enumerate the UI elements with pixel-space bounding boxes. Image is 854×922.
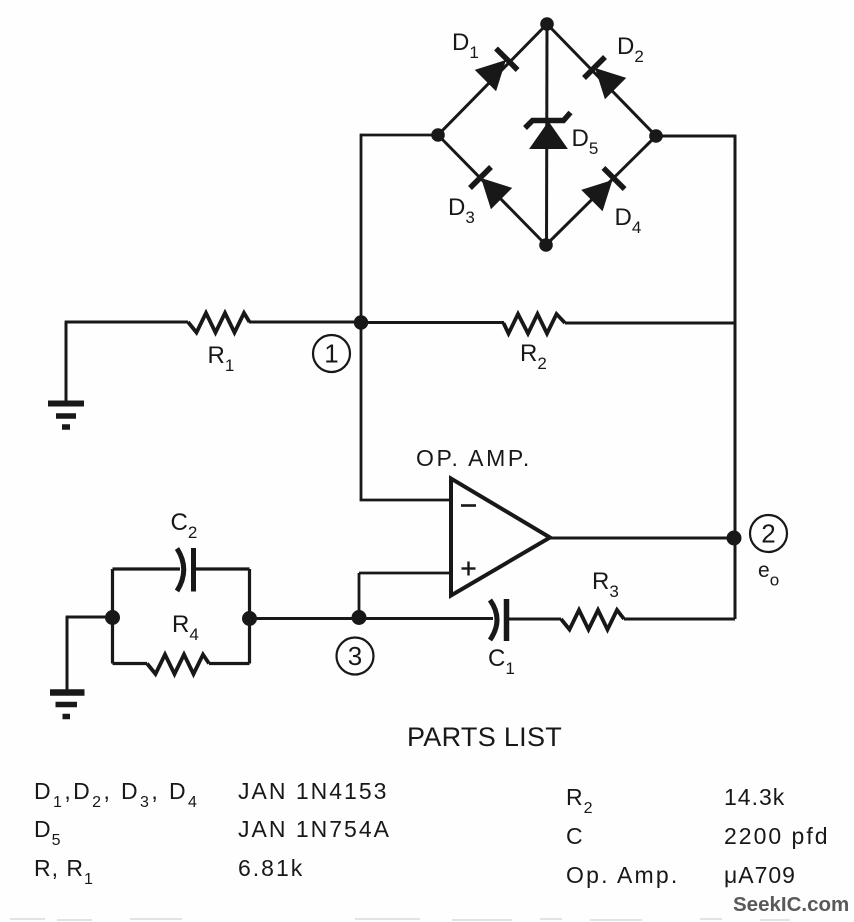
svg-text:JAN 1N4153: JAN 1N4153 xyxy=(238,778,388,804)
wire op-amp plus input xyxy=(359,572,452,575)
wire bridge center vertical xyxy=(545,24,549,245)
node bridge top junction xyxy=(540,17,554,31)
wire left ground drop xyxy=(65,322,68,402)
svg-text:2200 pfd: 2200 pfd xyxy=(724,823,830,849)
svg-text:μA709: μA709 xyxy=(724,862,796,888)
wire bridge left node to left rail xyxy=(361,134,438,137)
svg-text:JAN 1N754A: JAN 1N754A xyxy=(238,816,391,842)
wire bridge arm bottom-left xyxy=(438,135,546,245)
svg-text:14.3k: 14.3k xyxy=(724,784,785,810)
parallel box right vertical xyxy=(248,569,251,664)
diode D3 xyxy=(470,167,510,207)
wire op-amp output to node 2 xyxy=(549,537,735,540)
node bridge bottom junction xyxy=(539,238,553,252)
svg-text:1: 1 xyxy=(324,339,338,369)
wire parallel box left to ground xyxy=(66,616,113,619)
parallel box top rail left segment xyxy=(113,567,181,570)
capacitor C2 xyxy=(177,548,194,592)
parallel box top rail right segment xyxy=(194,567,250,570)
zener diode D5 xyxy=(525,113,571,149)
wire bridge arm top-left xyxy=(438,24,547,135)
parallel box bottom rail right segment xyxy=(209,662,250,665)
parallel box left vertical xyxy=(111,569,114,664)
node 1 junction dot xyxy=(354,315,368,329)
node parallel box left junction xyxy=(105,610,120,625)
wire R1 to node 1 xyxy=(249,321,361,324)
wire C1 to node 3 xyxy=(359,617,493,620)
wire R3 to C1 xyxy=(507,618,561,621)
ground (left, at R1) xyxy=(48,404,84,428)
svg-text:Op. Amp.: Op. Amp. xyxy=(566,862,679,888)
ground (bottom, at R4/C2) xyxy=(50,693,85,717)
svg-text:OP. AMP.: OP. AMP. xyxy=(416,445,532,471)
wire op-amp minus input xyxy=(360,499,452,502)
svg-text:6.81k: 6.81k xyxy=(238,855,304,881)
resistor R3 xyxy=(561,610,624,630)
wire right rail vertical xyxy=(734,135,737,619)
wire R2 to right rail xyxy=(565,322,737,325)
wire bridge right node to right rail xyxy=(656,135,735,138)
node bridge right junction xyxy=(649,129,663,143)
wire node 2 rail down to R3 row xyxy=(624,618,735,621)
faint scan remnants bottom edge xyxy=(10,919,790,920)
svg-text:3: 3 xyxy=(348,641,362,671)
node 2 circled label xyxy=(750,515,787,552)
wire bridge arm top-right xyxy=(547,24,656,136)
diode D4 xyxy=(584,168,625,209)
svg-text:2: 2 xyxy=(761,519,775,549)
op-amp U1 xyxy=(451,479,550,596)
node parallel box right junction xyxy=(242,611,257,626)
node 2 junction dot xyxy=(727,531,742,546)
svg-text:SeekIC.com: SeekIC.com xyxy=(733,893,849,916)
wire ground to R1 xyxy=(65,321,188,324)
wire node 1 to R2 xyxy=(361,321,504,324)
svg-text:PARTS LIST: PARTS LIST xyxy=(407,722,562,752)
diode D2 xyxy=(584,57,624,97)
wire bottom ground drop xyxy=(66,617,69,690)
node 1 circled label xyxy=(313,335,350,372)
node 3 junction dot xyxy=(352,610,367,625)
svg-text:C: C xyxy=(566,823,584,849)
wire node 3 to parallel box right xyxy=(250,617,360,620)
wire plus input drop to node 3 xyxy=(358,573,361,619)
node 3 circled label xyxy=(337,638,374,675)
wire left rail vertical (node 1 down to minus input corner) xyxy=(360,134,363,500)
resistor R1 xyxy=(188,313,250,333)
parallel box bottom rail left segment xyxy=(113,662,148,665)
capacitor C1 xyxy=(490,599,507,641)
wire bridge arm bottom-right xyxy=(546,136,656,245)
resistor R2 xyxy=(504,314,566,334)
diode D1 xyxy=(477,48,517,89)
resistor R4 xyxy=(147,655,209,675)
node bridge left junction xyxy=(431,128,445,142)
